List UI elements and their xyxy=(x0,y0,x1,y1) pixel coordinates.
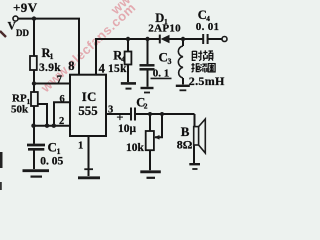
svg-text:10k: 10k xyxy=(126,142,145,154)
svg-text:555: 555 xyxy=(78,104,97,118)
svg-text:8Ω: 8Ω xyxy=(177,137,193,151)
svg-text:15k: 15k xyxy=(108,63,127,75)
svg-text:+9V: +9V xyxy=(13,0,38,15)
svg-text:IC: IC xyxy=(82,90,97,104)
svg-text:6: 6 xyxy=(60,94,65,105)
svg-text:0. 05: 0. 05 xyxy=(40,156,63,168)
svg-text:7: 7 xyxy=(57,75,62,86)
svg-text:3: 3 xyxy=(108,104,113,115)
svg-text:C: C xyxy=(159,50,168,65)
svg-text:2.5mH: 2.5mH xyxy=(189,74,225,88)
svg-text:DD: DD xyxy=(16,28,29,38)
svg-text:2: 2 xyxy=(144,102,148,111)
svg-text:10μ: 10μ xyxy=(118,123,137,135)
svg-text:3: 3 xyxy=(168,57,172,66)
svg-text:2: 2 xyxy=(59,116,64,127)
svg-text:3.9k: 3.9k xyxy=(39,62,61,74)
svg-text:8: 8 xyxy=(68,59,74,73)
svg-text:1: 1 xyxy=(50,52,54,61)
svg-text:2AP10: 2AP10 xyxy=(148,23,181,35)
svg-text:0. 01: 0. 01 xyxy=(196,21,220,33)
svg-text:4: 4 xyxy=(99,61,106,75)
svg-text:50k: 50k xyxy=(11,104,29,116)
svg-text:C: C xyxy=(48,139,57,154)
svg-text:1: 1 xyxy=(78,140,83,151)
